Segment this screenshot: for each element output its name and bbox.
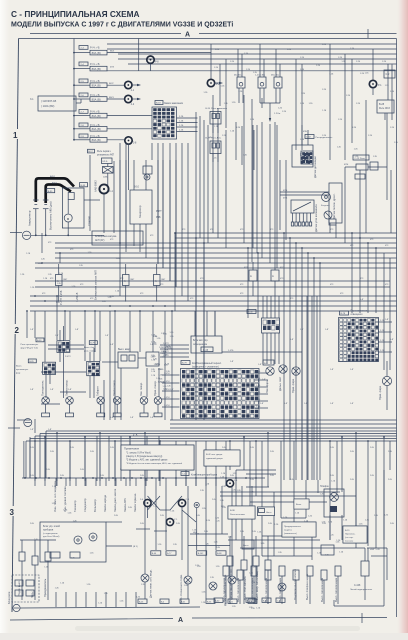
svg-text:1.4Г: 1.4Г [325,329,329,331]
ignition switch output wires [177,116,198,132]
scattered wire labels top [214,44,395,141]
svg-text:В-10: В-10 [134,187,140,189]
temp switch small box [294,499,309,509]
lighting control module box [191,336,222,353]
fuse F5 body [90,113,107,118]
connector 4-1 arrow [132,84,139,86]
svg-text:Лев. фара: Лев. фара [265,380,269,393]
fuse stack feed line [73,39,75,141]
svg-text:Датчик угла коленвала: Датчик угла коленвала [314,204,318,232]
generator box [130,187,152,225]
wires to ignition amplifier [253,122,308,268]
svg-text:1.4Г: 1.4Г [230,361,234,363]
bottom tag boxes row lower [138,599,257,604]
svg-text:1.2Б: 1.2Б [338,57,343,59]
parking brake switch circle [184,576,192,584]
fuse F2 body [90,66,107,71]
connector circle P-1 [369,80,376,87]
engine harness verticals left [104,160,176,287]
fog relay connector grid [57,341,70,353]
svg-text:Р-4ГЛ 1.25Б: Р-4ГЛ 1.25Б [59,290,63,305]
fuse F4 wire to connector [107,98,124,100]
vertical wires fuse area to mid section [114,143,188,301]
fog relay wires [60,326,71,398]
svg-text:1.4Г: 1.4Г [170,389,174,391]
svg-text:(омывателя): (омывателя) [284,533,297,535]
heater plug relay label C-29 [353,155,369,160]
svg-text:освещения: освещения [351,314,364,316]
svg-text:Часы: Часы [30,592,34,598]
starter box [62,188,84,228]
svg-text:(сверху 2, В (раздельные вверх: (сверху 2, В (раздельные вверху)) [126,456,163,458]
wires distributor to bus [280,160,329,240]
svg-text:резервного АКП: резервного АКП [97,153,114,156]
junction dots bundle B [34,432,385,442]
svg-text:Датчик детонации: Датчик детонации [313,156,317,178]
svg-text:80А (В): 80А (В) [92,84,101,88]
svg-text:В-78: В-78 [341,313,346,315]
coil connector tag below [263,360,274,365]
svg-text:Дальн. свет: Дальн. свет [278,376,282,391]
svg-text:1.4Б: 1.4Б [256,385,261,387]
svg-text:В-40: В-40 [248,312,253,314]
svg-text:1.2Б: 1.2Б [316,65,321,67]
fuse F1 wire to bus riser [107,52,211,54]
bottom extra vertical labels right [222,577,338,602]
svg-text:1.2Ч: 1.2Ч [380,350,385,352]
svg-text:1.2Ож: 1.2Ож [274,113,281,115]
ground bus wire mid-left [31,234,104,236]
svg-text:1.2Б: 1.2Б [287,49,292,51]
svg-text:1.2Б: 1.2Б [352,127,357,129]
svg-text:4Бч 4Бч: 4Бч 4Бч [234,74,242,76]
svg-text:освещением: освещением [193,343,207,346]
svg-text:1.4Г: 1.4Г [360,299,364,301]
connector circle gauge Y [166,518,173,525]
bottom right horizontal wires [220,492,365,548]
svg-text:1: 1 [13,131,18,140]
ground symbol lower-left [24,419,32,427]
fuse F2 feed stub [74,68,90,70]
svg-text:С-10: С-10 [182,474,188,476]
svg-text:С - ПРИНЦИПИАЛЬНАЯ СХЕМА: С - ПРИНЦИПИАЛЬНАЯ СХЕМА [11,9,140,19]
fuse F6 wire [107,128,152,130]
wiper switch connector grid [339,318,379,362]
svg-text:1.2Ч: 1.2Ч [380,330,385,332]
top section marker line A [30,33,181,35]
svg-text:В-95: В-95 [48,191,53,193]
svg-text:1.4Г: 1.4Г [350,369,354,371]
svg-text:Вольтметр: Вольтметр [93,499,97,512]
coil connector wires down [263,296,279,364]
svg-text:1.2Б: 1.2Б [246,69,251,71]
svg-text:Блок реле: Блок реле [7,591,11,604]
svg-text:Габарит: Габарит [96,386,100,396]
wires into lighting module top [195,311,215,336]
fuse F1 body [90,50,107,55]
svg-text:БР-Б: БР-Б [103,161,108,163]
svg-text:Выкл. сигнализации: Выкл. сигнализации [278,577,282,602]
svg-text:А: А [124,279,126,283]
svg-text:Подсв. выкл.: Подсв. выкл. [17,580,21,596]
distributor box with diagonal [291,200,314,213]
svg-text:Выключатель АКБ (диз): Выключатель АКБ (диз) [49,201,53,230]
svg-text:для Free Wheel): для Free Wheel) [43,535,60,538]
connector circle top 1-3 [226,480,233,487]
svg-text:Аккумулятор: Аккумулятор [28,210,32,226]
starter wires [84,199,100,201]
wire circle P-1 stub [372,88,374,95]
svg-text:1.2Б: 1.2Б [300,139,305,141]
ignition coil circle [322,193,331,202]
wire 2-8 drop [128,144,130,190]
svg-text:1.4Г: 1.4Г [284,403,288,405]
svg-text:3: 3 [10,508,15,517]
vertical wires lower-mid left columns [27,296,172,481]
svg-text:К. В: К. В [133,434,138,437]
svg-text:1.4Г: 1.4Г [105,335,109,337]
svg-text:сдвижной двери: сдвижной двери [206,457,223,460]
svg-text:1.4Б: 1.4Б [256,399,261,401]
svg-text:1.2Б: 1.2Б [244,53,249,55]
scattered wire labels low [30,299,394,431]
connector circle gauge C [178,499,185,506]
svg-text:1.2Б: 1.2Б [390,127,395,129]
interior lamp circle with cross [324,489,344,517]
svg-text:Р-/Ч-.-/-Б: Р-/Ч-.-/-Б [90,48,100,50]
svg-text:Предохранитель: Предохранитель [284,526,302,528]
fuse F2 tag [79,62,88,66]
svg-text:1.4Г: 1.4Г [60,344,64,346]
clock box opaque redraw [258,507,275,516]
fuse F7 body [90,138,107,143]
svg-text:1.4Г: 1.4Г [68,389,72,391]
bottom mid component drops [56,592,136,607]
connector circle 4-1 [125,81,132,88]
courtesy lamp circle right [278,583,286,591]
svg-text:А: А [155,279,157,283]
temperature sensor circle [141,574,149,582]
svg-text:1.2Б: 1.2Б [230,61,235,63]
svg-text:Лампа тормоза: Лампа тормоза [133,493,137,512]
bottom right component boxes row [227,536,271,604]
inline connector K1 [244,262,257,296]
combination switch left wires [162,373,180,407]
ignition switch connector grid [152,107,177,139]
svg-text:1.4Г: 1.4Г [300,329,304,331]
svg-text:4ПЧ: 4ПЧ [344,164,349,166]
clock box bottom [242,540,254,549]
connector circle 2-8 [125,137,132,144]
svg-text:(В З): (В З) [133,546,138,548]
wire lighting module to trunk [222,351,302,353]
fuse F4 body [90,97,107,102]
row number 1 [12,129,18,139]
connector circle 4-2 [125,95,132,102]
svg-text:1.4Г: 1.4Г [258,364,262,366]
battery tag box B-95 [47,189,55,193]
svg-text:1.4Г: 1.4Г [75,329,79,331]
wire fusible link to fuse stack [76,102,81,104]
svg-text:Реле зажигания: Реле зажигания [211,108,228,110]
note box 2 [204,450,240,466]
svg-text:фар (*М для V-6): фар (*М для V-6) [21,346,38,349]
svg-text:Выкл.: Выкл. [16,366,22,368]
svg-text:1.4Г: 1.4Г [55,335,59,337]
svg-text:1.4ГП: 1.4ГП [163,343,169,345]
vertical wire labels mid-left margin [59,270,98,305]
right headlamp circle far [382,376,391,385]
ignition relay box B-26 [210,112,221,134]
svg-text:Выкл. бок.: Выкл. бок. [84,347,95,349]
svg-text:80А (В): 80А (В) [92,138,101,142]
svg-text:Комбинированный перекл.: Комбинированный перекл. [192,362,222,365]
svg-text:1.4Г: 1.4Г [304,403,308,405]
svg-text:1.2Б: 1.2Б [222,135,227,137]
svg-text:Р-4ГЛ: Р-4ГЛ [65,356,71,358]
svg-text:Выкл.: Выкл. [296,504,302,506]
svg-text:1.4Г: 1.4Г [30,389,34,391]
wires left of lighting module [160,343,189,357]
svg-text:1.2Б: 1.2Б [322,44,327,46]
headlamp circle high beam [279,365,287,373]
page right pink scan edge [396,0,408,640]
fuse F7 tag [79,134,88,138]
svg-text:1.2Б: 1.2Б [179,130,184,132]
svg-text:1.4Г: 1.4Г [48,429,52,431]
junction relay box dashed bottom-left [7,575,39,604]
svg-text:1.4Г: 1.4Г [350,403,354,405]
svg-text:4ПЧ: 4ПЧ [303,131,308,133]
svg-text:АКБ1: АКБ1 [50,175,56,178]
svg-text:противотум.: противотум. [16,369,29,371]
svg-text:МОДЕЛИ ВЫПУСКА С 1997 г С ДВИГ: МОДЕЛИ ВЫПУСКА С 1997 г С ДВИГАТЕЛЯМИ VG… [11,22,233,29]
svg-text:Блокировка запуска АКП: Блокировка запуска АКП [94,270,98,300]
lighting module pin stubs [207,311,215,336]
svg-text:1.4Г: 1.4Г [260,403,264,405]
fuse F4 feed stub [74,98,90,100]
fuse F7 feed stub [74,139,90,141]
temp switch box opaque redraw [294,499,309,509]
note box 2 opaque redraw [204,450,240,466]
left border tick row1-2 [10,232,22,234]
svg-text:1.4Г: 1.4Г [110,417,114,419]
main trunk vertical wires center [302,296,317,480]
main power bus wires top [107,44,397,71]
svg-text:Тахометр: Тахометр [73,500,77,512]
row number 3 [9,506,15,516]
svg-text:АКБ2: АКБ2 [52,181,58,184]
svg-text:Подсветка выключателей: Подсветка выключателей [293,569,297,600]
svg-text:защиты: защиты [284,530,292,532]
harness bundle B horizontal wires [26,420,397,478]
diagonal cross wires instrument area [148,496,197,522]
svg-text:80А (В): 80А (В) [92,127,101,131]
fuse F5 tag [79,110,88,114]
wire B-28 stub [384,113,386,120]
svg-text:Блок авт. упр.: Блок авт. упр. [193,339,209,342]
svg-text:4ПЧ: 4ПЧ [283,190,288,192]
bottom extra horizontals [236,470,312,556]
svg-text:1-2Сж 4Бч: 1-2Сж 4Бч [255,74,265,76]
svg-text:Выкл. стоп-сигнала: Выкл. стоп-сигнала [243,576,247,600]
cigarette heater resistor [361,548,369,600]
washer level sensor circle [209,582,217,590]
svg-text:Лев. повор.: Лев. повор. [139,382,143,396]
relay box right edge B-28 [377,100,394,113]
inhibitor switch box [92,231,143,245]
svg-text:1.2Б: 1.2Б [356,61,361,63]
battery minus wire to ground [35,214,37,235]
svg-text:Р.4ГТ: Р.4ГТ [156,211,162,213]
svg-text:Комбинация приборов: Комбинация приборов [191,474,218,477]
note box [121,445,194,470]
junction dots bundle A [26,232,377,312]
power source relay box opaque redraw [228,506,255,519]
headlamp circle left low beam [266,367,274,375]
svg-text:В-98: В-98 [230,510,235,512]
connector circle above generator [144,174,150,180]
washer guard fuse box opaque redraw [282,522,316,537]
svg-text:Выкл. плафона задка: Выкл. плафона задка [305,573,309,600]
svg-text:(со стор.: (со стор. [345,537,354,539]
ground symbol mid-left [22,231,30,239]
svg-text:4ПБ: 4ПБ [283,198,288,200]
fuse F3 tag [79,79,88,83]
svg-text:( 140А (ВК): ( 140А (ВК) [41,104,54,108]
svg-text:Датчик темп. охл. жидк.: Датчик темп. охл. жидк. [149,569,153,598]
svg-text:А: А [250,274,252,278]
bottom mid vertical wires [145,486,252,599]
fuse F3 body [90,83,107,88]
washer guard fuse box [282,522,316,537]
svg-text:1.2Б: 1.2Б [179,125,184,127]
svg-text:1.2Ч: 1.2Ч [380,340,385,342]
bottom right tag boxes row [214,598,285,603]
svg-text:80А (В): 80А (В) [92,67,101,71]
fuse F5 wire to ignition switch [107,115,152,117]
svg-text:80А (В): 80А (В) [92,51,101,55]
svg-text:4ПЗ: 4ПЗ [110,67,115,69]
svg-text:80А (В): 80А (В) [92,114,101,118]
svg-text:Выкл. сигнализации: Выкл. сигнализации [222,577,226,602]
svg-text:Левый подогреватель: Левый подогреватель [350,588,373,591]
connector circle C-1 heavy [99,184,108,193]
svg-text:Р.4Б: Р.4Б [156,217,161,219]
svg-text:Р-/Ч-.-/-Б: Р-/Ч-.-/-Б [90,64,100,66]
right frame border [396,39,398,618]
ignition switch label tag B-18 [155,101,163,105]
fog switch connector grid [43,362,56,374]
svg-text:пассаж.): пассаж.) [345,540,353,542]
wire B-28 down pair [386,113,388,167]
svg-text:АКП (АТ): АКП (АТ) [95,239,105,242]
svg-text:Реле противотум.: Реле противотум. [21,344,39,346]
svg-text:1.4Б: 1.4Б [256,371,261,373]
svg-text:Выкл. сигнализации: Выкл. сигнализации [236,577,240,602]
small circle sensor [194,502,199,507]
row number 2 [14,324,20,334]
svg-text:( G0Х39Т-1В: ( G0Х39Т-1В [41,99,57,103]
svg-text:1.4Г: 1.4Г [385,319,389,321]
left border mid tick [8,427,20,429]
svg-text:Блокировка запуска: Блокировка запуска [95,236,117,238]
svg-text:1.2Б: 1.2Б [179,116,184,118]
thick battery cable 2 [46,185,71,204]
svg-text:В-42 лев. двери: В-42 лев. двери [206,454,223,456]
svg-text:Реле ЭОЗ: Реле ЭОЗ [379,108,390,110]
svg-text:Прикуриватель: Прикуриватель [43,578,47,597]
bottom right vertical labels [229,569,309,600]
generator wires down [133,224,135,246]
svg-text:приборов: приборов [43,529,54,531]
svg-text:С-2: С-2 [386,73,391,76]
bleed-through smudge bottom [75,626,360,631]
turn signal switch tag B-79 [89,341,97,345]
svg-text:В-102: В-102 [198,553,204,555]
resistor box mid-right [355,174,365,179]
svg-text:Датчик полож. дросс.: Датчик полож. дросс. [332,193,336,219]
inline fuse boxes mid-left row [56,264,167,302]
svg-text:1.4Г: 1.4Г [290,339,294,341]
tick on top A line [367,29,369,38]
connector circle P-8 [147,56,154,63]
AT reverse relay tag B-17 [88,149,95,153]
svg-text:Примечание: Примечание [124,447,140,451]
svg-text:1.4Г: 1.4Г [330,369,334,371]
svg-text:Реле-источник: Реле-источник [230,514,245,516]
harness bundle vertical drops mid [42,233,390,480]
bottom vertical label cluster [53,481,137,512]
scattered wire labels mid [42,229,389,300]
svg-text:Лампа ABS: Лампа ABS [123,498,127,512]
svg-text:Датчик омывателя (СО20: Датчик омывателя (СО20 [229,569,233,600]
relay R2 R3 joining wire [260,102,280,104]
instrument cluster bus line [22,477,265,479]
svg-text:1.2Б: 1.2Б [282,111,287,113]
bottom left horizontal wires [20,522,167,546]
svg-text:1.4Г: 1.4Г [30,329,34,331]
relay accessory R2 [255,74,266,103]
svg-text:Лампа повор.: Лампа повор. [112,379,116,396]
turn signal grid wires [90,348,94,398]
fuse F3 wire to connector [107,84,124,86]
ground bus junction dots [35,234,69,236]
svg-text:1.2Б: 1.2Б [350,48,355,50]
ignition amplifier tag C-32 [305,135,314,139]
svg-text:ВЖЗ: ВЖЗ [109,97,114,99]
generator wires up [133,160,135,190]
AT reverse relay sub-box [102,158,113,164]
connector circle P-2 [207,79,214,86]
heater plug fuse [356,164,368,170]
svg-text:1.2Б: 1.2Б [338,119,343,121]
power source relay box B-98 [228,506,255,519]
distributor pins [291,213,311,226]
svg-text:С-108: С-108 [354,585,361,587]
fuse F6 tag [79,123,88,127]
instrument cluster bus junction dots [24,477,257,479]
svg-text:1.4Г: 1.4Г [390,339,394,341]
svg-text:С-32: С-32 [306,137,312,139]
svg-text:ВОР: ВОР [109,83,114,85]
svg-text:1.4Б: 1.4Б [256,392,261,394]
wire to right headlamp [386,361,388,376]
P-2 arrow [215,82,220,84]
battery 1 plates [33,200,39,214]
scattered wire labels bottom [30,447,395,549]
combination switch big connector grid [181,369,260,419]
